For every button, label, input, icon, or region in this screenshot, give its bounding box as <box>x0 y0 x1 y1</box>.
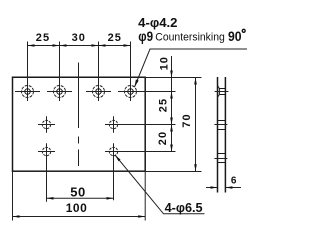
dims 10 25 20 <box>157 56 173 152</box>
countersunk hole A4 <box>118 42 176 102</box>
dim 6 <box>206 176 241 189</box>
svg-text:25: 25 <box>158 98 170 112</box>
countersunk hole A3 <box>86 42 111 102</box>
right extension lines top/bottom edge <box>145 77 201 79</box>
side view left edge <box>217 77 219 193</box>
hole B3 phi6.5 <box>38 143 55 202</box>
svg-text:30: 30 <box>72 32 86 44</box>
leader countersunk holes label <box>135 15 248 87</box>
svg-text:50: 50 <box>70 184 85 199</box>
countersunk hole A1 <box>15 42 40 102</box>
countersunk hole A2 <box>47 42 72 102</box>
dim 100 <box>13 171 146 220</box>
svg-text:100: 100 <box>66 201 88 215</box>
svg-text:20: 20 <box>157 131 169 145</box>
svg-text:4-φ4.2: 4-φ4.2 <box>138 15 177 30</box>
svg-text:Countersinking: Countersinking <box>155 32 225 44</box>
hole B2 phi6.5 <box>105 116 176 132</box>
hole B4 phi6.5 <box>105 143 176 200</box>
vertical centerline <box>78 63 80 129</box>
svg-text:25: 25 <box>36 32 50 44</box>
side countersink detail <box>215 85 229 97</box>
hole B1 phi6.5 <box>38 116 55 132</box>
leader phi6.5 label <box>115 155 205 215</box>
svg-text:90: 90 <box>228 29 242 44</box>
degree mark <box>242 29 245 32</box>
dim 70 <box>181 78 197 172</box>
side view right edge <box>224 77 226 193</box>
svg-text:10: 10 <box>159 56 171 70</box>
svg-text:70: 70 <box>181 113 193 127</box>
svg-text:φ9: φ9 <box>138 29 153 44</box>
side hole row2 <box>214 154 227 163</box>
svg-text:6: 6 <box>231 176 237 187</box>
top dimension 25/30/25 <box>28 32 131 47</box>
side hole row1 <box>214 121 227 130</box>
dim 50 <box>47 184 114 199</box>
svg-text:25: 25 <box>108 32 122 44</box>
svg-text:4-φ6.5: 4-φ6.5 <box>165 200 203 215</box>
plate outline front view <box>13 77 146 171</box>
